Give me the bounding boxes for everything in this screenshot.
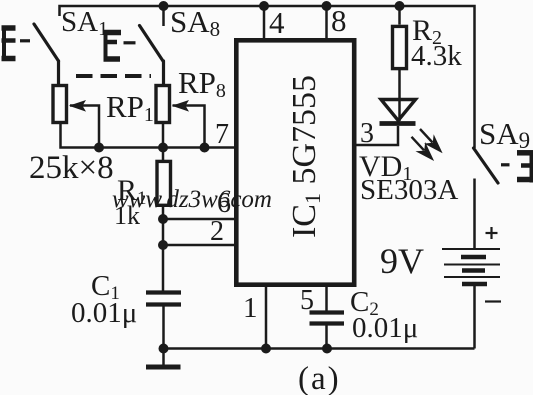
svg-text:(a): (a) (298, 361, 341, 395)
svg-text:8: 8 (331, 3, 347, 38)
svg-text:4: 4 (269, 5, 285, 40)
svg-text:1: 1 (243, 292, 258, 324)
svg-text:7: 7 (215, 119, 229, 150)
svg-text:2: 2 (210, 216, 224, 247)
svg-text:0.01μ: 0.01μ (71, 297, 137, 329)
svg-text:www.dz3w6com: www.dz3w6com (112, 186, 272, 213)
svg-text:0.01μ: 0.01μ (352, 312, 418, 344)
svg-text:5: 5 (300, 285, 314, 316)
svg-text:IC1 5G7555: IC1 5G7555 (286, 75, 325, 238)
svg-text:4.3k: 4.3k (411, 40, 462, 72)
svg-text:9V: 9V (380, 241, 424, 281)
svg-text:25k×8: 25k×8 (29, 150, 114, 186)
svg-text:3: 3 (360, 118, 374, 149)
svg-text:SE303A: SE303A (360, 174, 458, 206)
